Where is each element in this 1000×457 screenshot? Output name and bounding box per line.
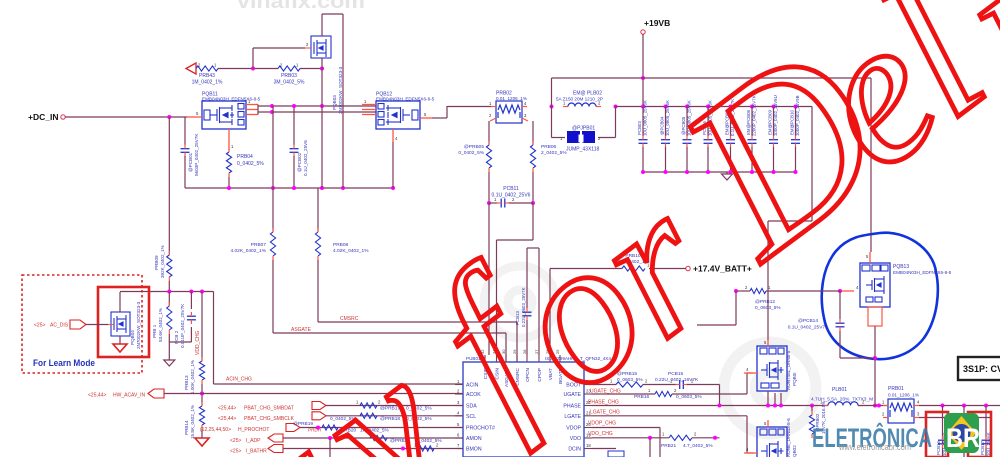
svg-text:@PCB14: @PCB14 — [798, 318, 818, 324]
wire @PCB04 lower — [665, 147, 667, 172]
IC right pin DCIN stub — [584, 448, 592, 450]
PLB02 stubs — [563, 106, 568, 108]
junction PCB11 a — [487, 201, 491, 205]
svg-text:PRB06: PRB06 — [541, 144, 557, 150]
wire jog 221 — [768, 220, 812, 222]
IC top pin BGATE stub — [559, 355, 561, 362]
svg-text:2: 2 — [694, 432, 697, 437]
wire PQB06 src b — [774, 393, 776, 406]
wire PQB04 drain — [119, 292, 121, 312]
wire PQB13 source — [874, 326, 876, 406]
wire OPCN col b — [526, 320, 528, 355]
wire +DC_IN — [65, 116, 187, 118]
svg-text:5: 5 — [457, 422, 460, 427]
svg-text:53.6K_0402_1%: 53.6K_0402_1% — [158, 308, 163, 342]
watermark letter f — [393, 226, 594, 456]
IC right pin BOOT stub — [584, 384, 592, 386]
watermark letter r — [551, 149, 752, 379]
junction PRB03 out — [320, 67, 324, 71]
wire AMON — [283, 437, 463, 439]
resistor @PRB18 — [360, 413, 377, 418]
svg-text:SDA: SDA — [466, 404, 477, 410]
svg-text:2: 2 — [745, 285, 748, 290]
svg-text:AC_DIS: AC_DIS — [50, 323, 69, 329]
svg-text:0.01_1206_1%: 0.01_1206_1% — [496, 96, 527, 101]
IC top pin CSIN stub — [496, 355, 498, 362]
svg-text:ASGATE: ASGATE — [291, 327, 312, 333]
junction rail 294 — [292, 186, 296, 190]
wire PQB03 gate — [253, 47, 305, 49]
junction gate cap — [838, 289, 842, 293]
faint gear watermark 2 — [724, 342, 816, 434]
PQB12 pin4 to rail — [392, 142, 394, 188]
svg-text:PROCHOT#: PROCHOT# — [466, 426, 495, 432]
wire CSIP column2 — [488, 172, 490, 203]
svg-text:PRB 1: PRB 1 — [152, 324, 157, 338]
wire PRB1 top — [168, 292, 170, 307]
wire SDA — [326, 405, 463, 407]
capacitor EM@PCB08 — [748, 139, 757, 141]
wire BOOT b — [643, 384, 676, 386]
wire VDO b — [692, 437, 720, 439]
wire @PCB04 upper — [665, 107, 667, 137]
svg-text:5: 5 — [424, 112, 427, 117]
svg-text:0_0603_5%: 0_0603_5% — [676, 394, 702, 400]
wire top rail right drop — [870, 78, 872, 252]
capacitor @PCB02 — [290, 148, 299, 150]
red marker box right 1 — [926, 412, 948, 457]
svg-text:VDO: VDO — [570, 436, 581, 442]
svg-text:4: 4 — [524, 101, 527, 106]
watermark letter D — [636, 0, 927, 305]
wire CSIN column2 — [532, 172, 534, 203]
svg-text:5: 5 — [196, 111, 199, 116]
wire 17V right — [649, 268, 686, 270]
svg-text:0_0603_5%: 0_0603_5% — [755, 305, 781, 311]
cap bank bottom rail — [643, 171, 796, 173]
junction vdo — [648, 436, 652, 440]
ground cap bank — [722, 174, 733, 180]
wire PCB2 top — [190, 292, 192, 310]
svg-text:+DC_IN: +DC_IN — [28, 112, 58, 122]
transistor PQB06 (high side) — [757, 346, 787, 391]
wire PCB14 bottom — [839, 331, 841, 358]
wire ASGATE drop — [505, 333, 507, 362]
PQB11 right stubs — [246, 104, 258, 106]
svg-text:VDD_CHG: VDD_CHG — [195, 330, 201, 355]
wire PQB06 feed — [767, 221, 769, 340]
wire top jog — [322, 13, 343, 15]
watermark letter o — [467, 192, 685, 435]
junction EM@PCB09 bottom — [772, 170, 776, 174]
PQB06 gate stub — [744, 372, 757, 374]
junction PCB11 b — [531, 201, 535, 205]
watermark letter l (of Only) — [243, 417, 425, 457]
svg-text:VDOP: VDOP — [566, 426, 581, 432]
wire PQB06 src a — [767, 391, 769, 406]
svg-text:392K_0402_1%: 392K_0402_1% — [160, 245, 165, 278]
transistor PQB11 — [202, 101, 246, 129]
capacitor bat 986 — [982, 439, 991, 441]
svg-text:PCB03: PCB03 — [637, 121, 642, 135]
PQB11 pin5 stub — [187, 116, 202, 118]
wire PRB08 bottom — [317, 260, 319, 322]
sense return bus — [919, 417, 992, 419]
junction PCB03 bottom — [641, 170, 645, 174]
+19VB terminal — [641, 30, 645, 34]
svg-text:PRDH: PRDH — [308, 428, 321, 433]
wire PCB02 top — [293, 106, 295, 145]
capacitor PCB13 — [523, 311, 532, 313]
resistor PRB16 — [655, 391, 672, 396]
wire UGATE riser — [746, 373, 748, 394]
tie PQB11 pins — [257, 105, 259, 115]
red ground PQB04 — [113, 344, 127, 352]
resistor PRB06 — [530, 145, 535, 168]
wire jump right — [615, 107, 617, 138]
wire CSIN to IC — [496, 240, 498, 355]
IC left pin SDA stub — [455, 405, 463, 407]
svg-text:<25>: <25> — [230, 438, 241, 444]
capacitor EM@PCB09 — [769, 139, 778, 141]
svg-text:PQB03: PQB03 — [332, 95, 337, 110]
arrow SMBDAT — [312, 402, 326, 410]
transistor PQB02 (low side) — [757, 427, 787, 457]
svg-text:BR: BR — [946, 423, 980, 453]
svg-text:PRB01: PRB01 — [888, 386, 904, 392]
svg-text:PRB21: PRB21 — [661, 443, 677, 449]
junction phase 781 — [779, 404, 783, 408]
IC left pin ACIN stub — [455, 384, 463, 386]
svg-text:<25>: <25> — [230, 449, 241, 455]
junction bat 964 — [962, 404, 966, 408]
svg-text:For Learn Mode: For Learn Mode — [33, 358, 95, 369]
svg-text:4.7_0402_5%: 4.7_0402_5% — [683, 443, 713, 449]
svg-text:vinafix.com: vinafix.com — [237, 0, 365, 13]
wire LGATE gate — [747, 452, 753, 454]
wire CPOP col — [538, 248, 540, 355]
svg-text:@PCB01: @PCB01 — [188, 152, 193, 172]
junction bus106 294 — [292, 104, 296, 108]
svg-text:4: 4 — [746, 367, 749, 372]
wire bat cap 942.5 — [942, 406, 944, 457]
svg-text:1: 1 — [768, 285, 771, 290]
capacitor bat 964 — [960, 439, 969, 441]
wire PRB08 top — [317, 188, 319, 232]
wire PROCHOT — [300, 427, 463, 429]
wire DCIN — [592, 448, 616, 450]
wire EM@PCB08 lower — [751, 147, 753, 172]
junction EM@PCB10 bottom — [794, 170, 798, 174]
svg-text:PQB04: PQB04 — [130, 330, 135, 345]
wire CMSRC drop — [516, 322, 518, 362]
svg-text:ACIN_CHG: ACIN_CHG — [226, 377, 252, 383]
junction +DC_IN/x169 — [167, 115, 171, 119]
wire BOOT drop — [719, 385, 721, 406]
svg-text:PRB07: PRB07 — [251, 242, 267, 248]
svg-text:EMB04N03H_EDFN5X6-8-5: EMB04N03H_EDFN5X6-8-5 — [893, 270, 952, 275]
wire to gnd — [168, 342, 170, 360]
+17.4V terminal — [686, 266, 690, 270]
junction amon — [328, 436, 332, 440]
top rail — [552, 77, 872, 79]
wire UGATE a — [592, 393, 655, 395]
junction PCB06 bottom — [706, 170, 710, 174]
resistor PRB09 body — [167, 255, 172, 277]
svg-text:EMB04N03H_EDFN5X6-8-5: EMB04N03H_EDFN5X6-8-5 — [376, 97, 435, 102]
svg-text:<25,44>: <25,44> — [218, 406, 236, 412]
wire PCB06 upper — [707, 107, 709, 137]
wire CSIN column — [532, 121, 534, 145]
wire PRB09 to node — [168, 281, 170, 292]
resistor @PRB15 — [616, 382, 643, 387]
IC top pin OPCN stub — [526, 355, 528, 362]
transistor PQB12 — [376, 101, 420, 129]
arrow IADP — [268, 434, 283, 442]
svg-text:4: 4 — [457, 410, 460, 415]
svg-text:<25>: <25> — [34, 323, 45, 329]
svg-text:3: 3 — [524, 113, 527, 118]
junction vdo2 — [713, 436, 717, 440]
svg-text:15.8K_0402_1%: 15.8K_0402_1% — [190, 405, 195, 439]
resistor PRB04 — [226, 152, 231, 173]
wire VDD sense drop — [168, 117, 170, 255]
junction phase 812 — [810, 404, 814, 408]
resistor PRB14 — [199, 406, 204, 425]
junction prochot — [316, 426, 320, 430]
IC top pin VBAT stub — [549, 355, 551, 362]
svg-text:ACOK: ACOK — [466, 392, 481, 398]
ground learn — [164, 360, 175, 366]
PQB12 left stubs — [362, 104, 376, 106]
junction phase 875 — [873, 404, 877, 408]
junction bus112 — [270, 110, 274, 114]
resistor PRB21 — [669, 435, 692, 440]
wire LGATE riser — [746, 416, 748, 453]
wire gnd stub — [726, 172, 728, 174]
transistor PQB03 — [305, 36, 331, 58]
junction bus106 272 — [270, 104, 274, 108]
svg-text:1: 1 — [364, 99, 367, 104]
wire PCB14 tie — [840, 357, 875, 359]
svg-text:@PJPB01: @PJPB01 — [572, 126, 595, 132]
capacitor @PCB14 — [836, 322, 845, 324]
watermark letter y — [264, 313, 488, 457]
svg-text:2: 2 — [457, 389, 460, 394]
wire EM@PCB07 upper — [730, 107, 732, 137]
arrow PROCHOT — [286, 424, 300, 432]
svg-text:HW_ACAV_IN: HW_ACAV_IN — [113, 393, 146, 399]
wire SCL — [326, 415, 463, 417]
capacitor PCB11 — [500, 199, 502, 208]
wire jump bottom l — [552, 137, 566, 139]
battery bus — [919, 405, 1000, 407]
junction EM@PCB09 top — [772, 105, 776, 109]
svg-text:PCB16: PCB16 — [936, 441, 941, 455]
watermark letter l2 — [938, 0, 1000, 178]
junction @PCB05 bottom — [685, 170, 689, 174]
wire CSIN jog — [497, 239, 534, 241]
resistor PRB10 — [622, 266, 645, 271]
svg-text:AONE_DRN33-8-6: AONE_DRN33-8-6 — [786, 418, 791, 457]
+DC_IN terminal — [61, 115, 65, 119]
junction plb out — [877, 404, 881, 408]
wire PCB11 left — [489, 202, 497, 204]
svg-text:5603P_0402_25V7K: 5603P_0402_25V7K — [194, 133, 199, 176]
junction n1 — [167, 290, 171, 294]
svg-text:1M_0402_1%: 1M_0402_1% — [192, 80, 223, 86]
wire gate drive drop — [735, 291, 737, 325]
red dashed annotation box For Learn Mode — [22, 275, 142, 373]
junction EM@PCB10 top — [794, 105, 798, 109]
IC top pin CSIP stub — [484, 355, 486, 362]
transistor PQB04 — [108, 312, 130, 336]
wire PCB03 upper — [642, 107, 644, 137]
capacitor PCB03 — [639, 139, 648, 141]
inductor PLB01 — [828, 402, 858, 406]
svg-text:VBAT: VBAT — [548, 368, 554, 380]
junction phase 719.5 — [718, 404, 722, 408]
IC PUB01 ISL88731 box — [463, 362, 584, 457]
IC right pin LGATE stub — [584, 415, 592, 417]
wire jump bottom r — [598, 137, 616, 139]
svg-text:2: 2 — [280, 63, 283, 68]
svg-text:PLB01: PLB01 — [832, 387, 847, 393]
junction @PCB04 top — [664, 105, 668, 109]
transistor PQB13 — [860, 263, 890, 307]
wire gate drive left — [736, 290, 750, 292]
svg-text:<25,44>: <25,44> — [218, 416, 236, 422]
wire @PCB05 upper — [686, 107, 688, 137]
wire PCB06 lower — [707, 147, 709, 172]
wire OPCN col — [526, 248, 528, 308]
wire PQB03 drain up — [321, 14, 323, 36]
svg-text:2: 2 — [306, 42, 309, 47]
wire CSIP column — [488, 121, 490, 145]
svg-text:(12,25,44,50>: (12,25,44,50> — [200, 427, 231, 433]
wire OPCN tie — [527, 247, 539, 249]
svg-text:H_PROCHOT: H_PROCHOT — [238, 427, 269, 433]
svg-text:3: 3 — [917, 412, 920, 417]
wire to PRB02 — [447, 106, 491, 108]
wire PQB03 source down — [321, 58, 323, 188]
wire PCB03 lower — [642, 147, 644, 172]
wire amon drop — [329, 438, 331, 457]
svg-text:BMON: BMON — [466, 447, 482, 453]
wire BMON — [283, 448, 463, 450]
wire PCB2 bottom — [190, 327, 192, 342]
bus y106 — [258, 105, 376, 107]
capacitor @PCB05 — [683, 139, 692, 141]
wire PCB01 bottom — [184, 156, 186, 188]
wire PCB02 bottom — [293, 156, 295, 188]
svg-text:2: 2 — [882, 412, 885, 417]
svg-text:0.1U_0402_25V6: 0.1U_0402_25V6 — [303, 140, 308, 176]
resistor @PRB22 — [370, 435, 387, 440]
resistor PRB03 — [278, 66, 300, 71]
PQB13 pad box — [868, 307, 882, 326]
junction EM@PCB07 top — [729, 105, 733, 109]
svg-text:EMB04N03H_EDFN5X6-8-5: EMB04N03H_EDFN5X6-8-5 — [202, 97, 261, 102]
junction rail 273 — [271, 186, 275, 190]
junction phase 768 — [766, 404, 770, 408]
PQB02 drain stub — [767, 420, 769, 427]
junction PQB13 src — [873, 356, 877, 360]
svg-text:2N7002KW_SOT323-3: 2N7002KW_SOT323-3 — [136, 301, 141, 349]
wire PRB1 bottom — [168, 334, 170, 342]
red marker box right 2 — [968, 412, 991, 457]
IC left pin PROCHOT# stub — [455, 427, 463, 429]
svg-text:2: 2 — [489, 113, 492, 118]
svg-text:PBAT_CHG_SMBDAT: PBAT_CHG_SMBDAT — [244, 406, 294, 412]
svg-text:4.02K_0402_1%: 4.02K_0402_1% — [231, 248, 267, 254]
svg-text:@PRB05: @PRB05 — [464, 144, 484, 150]
wire gate drive right — [766, 290, 840, 292]
faint gear watermark 1 — [484, 266, 556, 338]
wire PRB14 gnd — [201, 429, 203, 438]
junction HW_ACAV — [200, 392, 204, 396]
junction bat 986 — [984, 404, 988, 408]
resistor @PRB12 — [750, 288, 766, 293]
wire UGATE gate — [747, 372, 753, 374]
wire BOOT c — [687, 384, 720, 386]
resistor PRB13 — [199, 361, 204, 380]
arrow SMBCLK — [312, 412, 326, 420]
resistor PRB 1 — [167, 306, 172, 330]
PQB02 gate stub — [744, 452, 757, 454]
svg-text:PCB17: PCB17 — [980, 441, 985, 455]
wire PRB43-PRB03 — [218, 68, 278, 70]
svg-text:6: 6 — [457, 433, 460, 438]
wire PCB11 right — [509, 202, 533, 204]
svg-text:4: 4 — [917, 400, 920, 405]
svg-text:PRB09: PRB09 — [154, 255, 159, 270]
junction bmon — [401, 447, 405, 451]
wire PQB12 out up — [446, 106, 448, 118]
svg-text:1: 1 — [296, 63, 299, 68]
IC left pin BMON stub — [455, 448, 463, 450]
svg-text:PRB14: PRB14 — [184, 420, 189, 435]
junction gate net — [251, 67, 255, 71]
wire VDD_CHG — [201, 292, 203, 362]
svg-text:PHASE: PHASE — [563, 404, 581, 410]
IC right pin VDOP stub — [584, 427, 592, 429]
wire drain right down — [342, 14, 344, 188]
wire ASGATE — [273, 332, 506, 334]
resistor @PRB05 — [486, 145, 491, 168]
svg-text:1: 1 — [489, 101, 492, 106]
capacitor EM@PCB07 — [726, 139, 735, 141]
svg-text:3M_0402_5%: 3M_0402_5% — [274, 80, 305, 86]
arrow IBAT — [268, 445, 283, 453]
resistor PRB01 (boxed) — [888, 399, 914, 423]
PQB06 drain stub — [767, 340, 769, 346]
wire PQB06 src c — [780, 393, 782, 406]
junction n3 — [200, 290, 204, 294]
wire 17V left — [550, 268, 622, 270]
component bottom edge — [608, 451, 624, 457]
resistor @PRB02b — [809, 415, 814, 434]
wire PRB07 bottom — [272, 260, 274, 333]
svg-text:JUMP_43X118: JUMP_43X118 — [566, 147, 599, 153]
svg-text:2_0402_5%: 2_0402_5% — [541, 150, 567, 156]
wire CMSRC — [318, 321, 517, 323]
junction rail 393 — [391, 186, 395, 190]
arrow net stub left — [186, 63, 196, 74]
svg-text:1: 1 — [457, 379, 460, 384]
bus y112 — [258, 111, 376, 113]
PRB04 to rail — [228, 177, 230, 188]
